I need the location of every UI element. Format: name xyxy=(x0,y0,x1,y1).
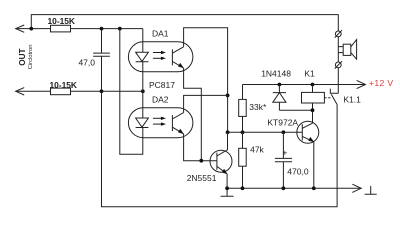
wire DA1 collector route xyxy=(184,28,228,133)
resistor R upper 10-15K xyxy=(51,25,71,32)
wire Q1 emitter xyxy=(226,174,228,188)
wire lower OUT lead xyxy=(16,90,51,92)
junction diode top xyxy=(278,83,282,87)
speaker B1 terminal 1 xyxy=(335,31,341,37)
wire relay top xyxy=(312,85,314,93)
junction rail1 loop xyxy=(118,27,122,31)
svg-text:DA2: DA2 xyxy=(152,94,169,104)
junction 33k/47k xyxy=(241,130,245,134)
wire rail2 right xyxy=(71,90,143,92)
opto DA1 phototransistor xyxy=(171,49,173,65)
opto DA1 LED xyxy=(136,52,149,62)
junction gnd 47k xyxy=(241,186,245,190)
junction DA2 collector xyxy=(226,94,230,98)
wire DA1 emitter route xyxy=(184,68,202,161)
svg-text:K1: K1 xyxy=(304,68,315,78)
wire node A rail xyxy=(228,131,297,133)
opto DA1 body xyxy=(128,42,193,72)
node +12V arrow xyxy=(357,80,366,88)
node OUT upper arrow xyxy=(16,25,25,32)
wire top rail to speaker xyxy=(31,15,338,31)
node OUT lower arrow xyxy=(16,88,25,95)
wire DA2 emitter route xyxy=(184,134,217,161)
opto DA2 body xyxy=(128,108,193,138)
transistor Q2 KT972A xyxy=(297,121,319,143)
junction gnd cap xyxy=(282,186,286,190)
wire between terminals xyxy=(337,37,339,62)
wire Q2 emitter xyxy=(313,142,315,189)
junction rail2 cap xyxy=(100,89,104,93)
svg-text:470,0: 470,0 xyxy=(287,166,309,176)
wire rail1 right xyxy=(71,28,143,30)
svg-text:+12 V: +12 V xyxy=(369,78,393,88)
junction node A xyxy=(226,130,230,134)
wire Q1 collector xyxy=(227,132,229,149)
junction relay bottom xyxy=(311,108,315,112)
junction gnd Q1 xyxy=(225,186,229,190)
opto DA2 light arrows xyxy=(153,117,162,119)
svg-text:Circlotron: Circlotron xyxy=(28,44,34,69)
svg-text:KT972A: KT972A xyxy=(267,118,298,128)
relay K1 coil xyxy=(302,92,325,103)
svg-text:33k*: 33k* xyxy=(249,102,267,112)
wire speaker to switch xyxy=(337,68,339,94)
svg-text:47k: 47k xyxy=(250,145,264,155)
junction relay top xyxy=(311,83,315,87)
wire DA2 collector route xyxy=(184,95,228,112)
capacitor 470,0 xyxy=(275,132,292,188)
wire upper OUT lead xyxy=(16,28,51,30)
junction gnd Q2 xyxy=(312,186,316,190)
opto DA1 light arrows xyxy=(153,52,162,54)
svg-text:DA1: DA1 xyxy=(152,29,169,39)
resistor 47k xyxy=(242,132,244,188)
resistor R lower 10-15K xyxy=(51,88,71,95)
resistor 33k* xyxy=(242,85,244,133)
junction rail1 cap xyxy=(100,27,104,31)
capacitor 47,0 xyxy=(93,29,110,92)
junction upper-left xyxy=(29,27,33,31)
wire +12V rail xyxy=(243,84,366,86)
svg-text:2N5551: 2N5551 xyxy=(187,173,217,183)
wire ground rail xyxy=(227,187,361,189)
junction cap/base xyxy=(282,130,286,134)
switch K1.1 xyxy=(330,89,338,94)
ground stub left xyxy=(221,188,234,196)
svg-text:10-15K: 10-15K xyxy=(50,80,77,90)
wire DA1 LED anode xyxy=(142,29,144,53)
speaker B1 xyxy=(338,47,343,53)
svg-text:K1.1: K1.1 xyxy=(343,94,361,104)
svg-text:OUT: OUT xyxy=(18,49,27,66)
diode VD1 1N4148 xyxy=(273,85,286,111)
opto DA2 LED xyxy=(136,118,149,128)
wire relay bottom / diode anode xyxy=(279,103,312,123)
junction rail2 LED xyxy=(141,89,145,93)
ground symbol right xyxy=(365,186,377,194)
svg-text:1N4148: 1N4148 xyxy=(261,68,291,78)
wire bottom loop xyxy=(102,91,338,206)
junction base 2N5551 xyxy=(199,159,203,163)
svg-text:PC817: PC817 xyxy=(149,80,175,90)
speaker B1 terminal 2 xyxy=(335,62,341,68)
node ground arrow xyxy=(352,184,361,192)
opto DA2 phototransistor xyxy=(171,115,173,131)
svg-text:+: + xyxy=(282,147,287,157)
wire DA2 cathode loop xyxy=(120,29,143,155)
svg-text:10-15K: 10-15K xyxy=(48,16,75,26)
transistor Q1 2N5551 xyxy=(210,150,232,172)
wire DA1 cathode to DA2 anode xyxy=(142,62,144,118)
svg-text:47,0: 47,0 xyxy=(78,58,95,68)
